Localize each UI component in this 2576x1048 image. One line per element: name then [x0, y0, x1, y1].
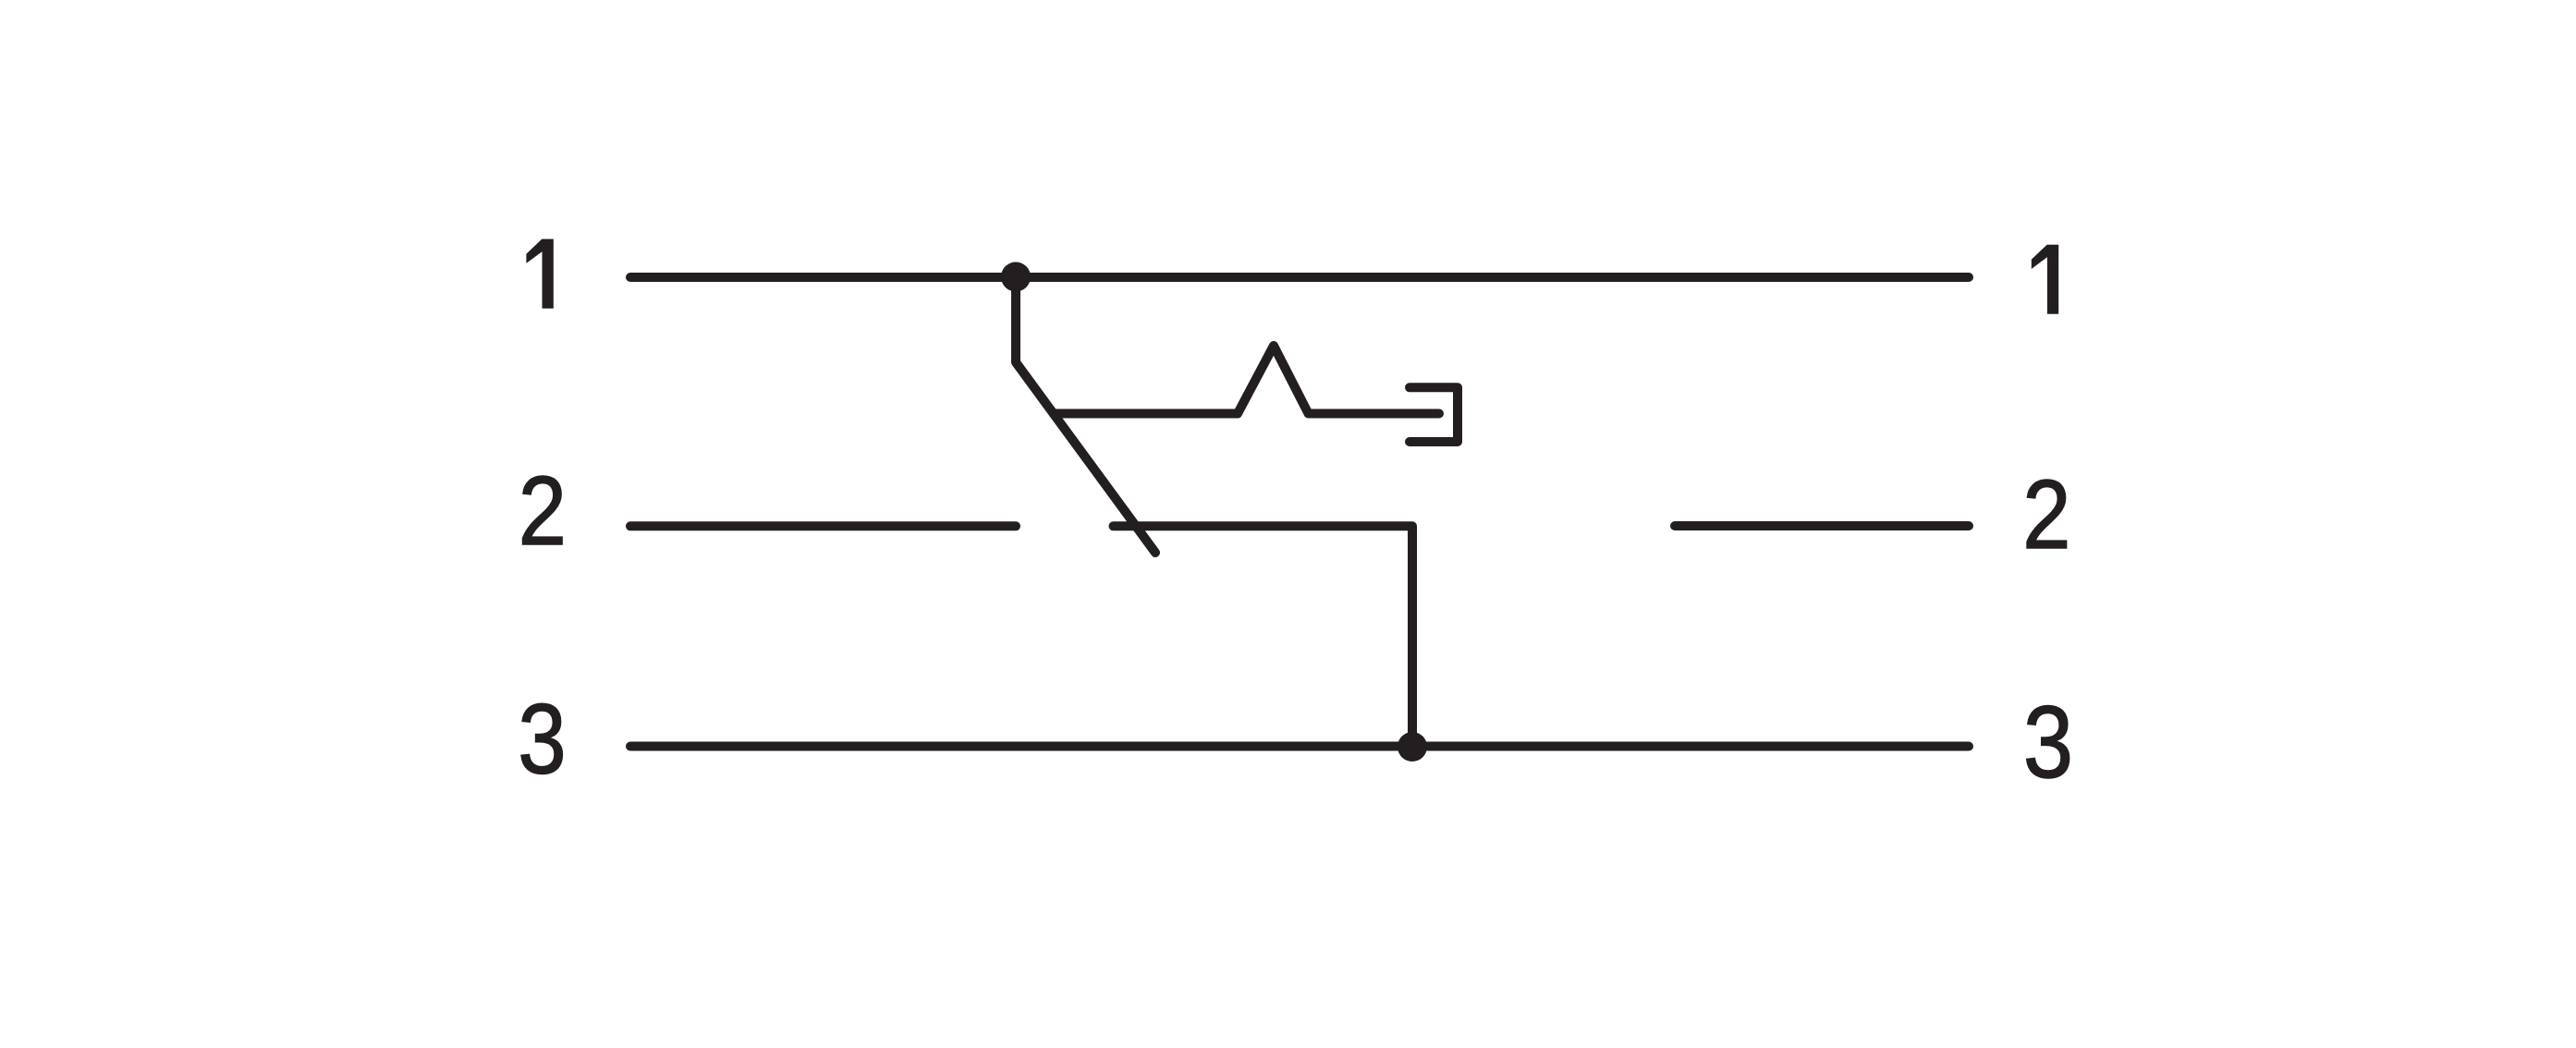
node A: junction dot on line 1 — [1001, 262, 1031, 292]
wire: pin 3 rail (left pin 3 to right pin 3) — [630, 742, 1969, 751]
wire: contact segment from lever to vertical drop, down to node B on line 3 — [1114, 526, 1413, 747]
wire: pin 1 rail (left pin 1 to right pin 1) — [630, 273, 1969, 282]
pin label 1 (left) — [526, 239, 553, 309]
wire: pin 2 rail right segment — [1675, 521, 1969, 530]
pin label 1 (right) — [2032, 245, 2058, 314]
svg-text:2: 2 — [519, 457, 567, 567]
svg-text:3: 3 — [518, 684, 566, 796]
switch S1: changeover lever from node A down across contact 2 — [1016, 277, 1155, 553]
node B: junction dot on line 3 — [1398, 732, 1427, 762]
spring: spring-return symbol with peak, attached to lever — [1054, 346, 1439, 414]
wire: pin 2 rail left segment — [630, 521, 1016, 530]
svg-text:2: 2 — [2022, 460, 2070, 570]
actuator: bracket symbol (open left) at end of spring line — [1410, 387, 1458, 442]
svg-text:3: 3 — [2023, 686, 2073, 799]
